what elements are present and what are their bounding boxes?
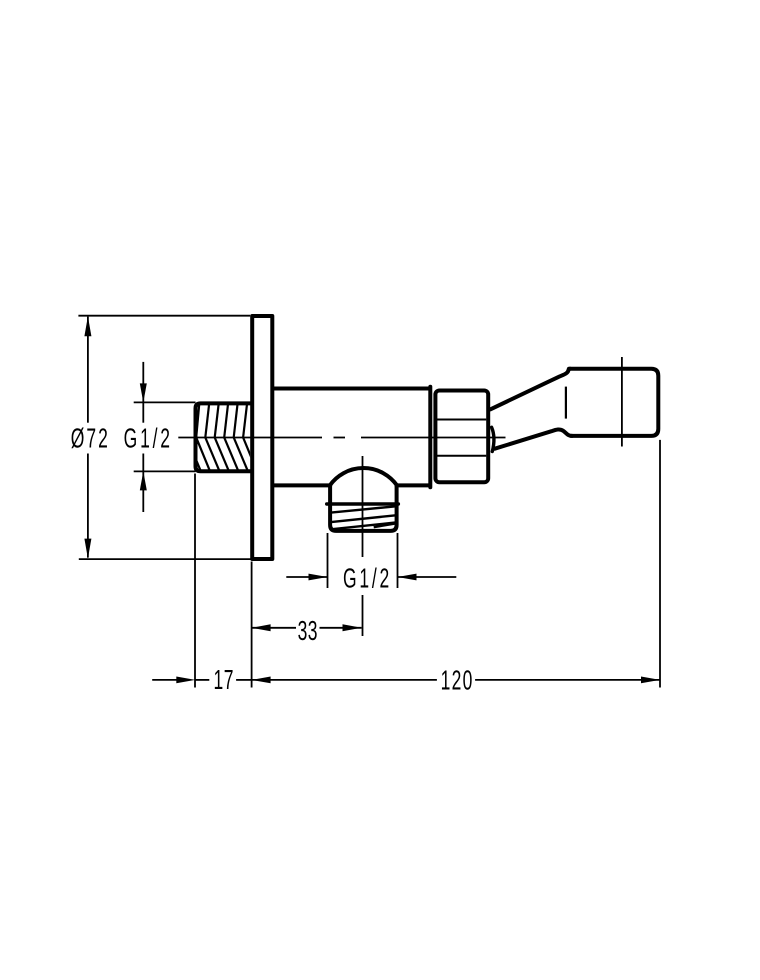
svg-text:33: 33: [298, 615, 318, 646]
svg-text:120: 120: [441, 664, 474, 695]
svg-text:G1/2: G1/2: [343, 562, 392, 593]
svg-text:G1/2: G1/2: [124, 422, 173, 453]
svg-text:17: 17: [213, 664, 233, 695]
svg-text:Ø72: Ø72: [71, 422, 110, 453]
